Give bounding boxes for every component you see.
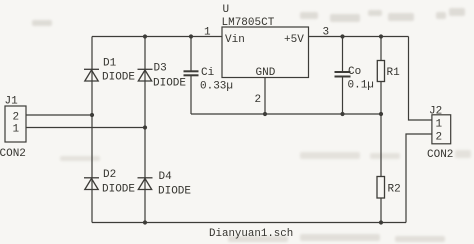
wire D3/D4 vertical [144,37,146,223]
svg-text:D1: D1 [103,58,117,70]
op-amp U1 regulator box LM7805CT [222,27,309,78]
resistor R2 [377,177,385,199]
svg-text:DIODE: DIODE [102,72,135,84]
diode D2 [84,178,99,190]
svg-text:R1: R1 [387,67,401,79]
svg-text:LM7805CT: LM7805CT [222,17,275,29]
diode D4 [138,178,153,190]
wire Ci vertical lower [190,76,192,114]
junction at ground bus / R1 [379,112,383,116]
wire right rail to J2 pin 1 [409,37,433,121]
svg-text:DIODE: DIODE [102,184,135,196]
wire regulator output (pin 3) [309,36,409,38]
svg-text:D3: D3 [154,63,167,75]
svg-text:GND: GND [256,67,276,79]
scan smudge top right [32,8,465,26]
svg-text:2: 2 [255,94,262,106]
svg-text:1: 1 [204,27,211,39]
wire J2 pin 2 to bottom bus [406,134,432,223]
svg-text:J1: J1 [5,96,19,108]
junction at output / Co [340,34,344,38]
junction at J1 pin2 / left vertical [90,113,94,117]
diode D1 [84,69,99,81]
wire top bus [92,36,222,38]
diode D3 [138,69,153,81]
svg-text:CON2: CON2 [427,149,453,161]
svg-text:2: 2 [13,112,20,124]
wire bottom bus [92,222,406,224]
svg-text:J2: J2 [429,106,442,118]
svg-text:Co: Co [348,66,361,78]
connector J1 CON2 [5,106,26,142]
svg-text:0.33µ: 0.33µ [200,81,233,93]
wire Co vertical lower [342,78,344,115]
junction at ground bus / regulator GND [263,112,267,116]
junction at output / R1 [379,34,383,38]
wire Co vertical upper [342,37,344,72]
svg-text:DIODE: DIODE [158,186,191,198]
svg-text:Ci: Ci [201,67,215,79]
capacitor Ci [184,71,199,75]
svg-text:2: 2 [436,132,443,144]
svg-text:U: U [223,4,230,16]
svg-text:CON2: CON2 [0,148,26,160]
wire Ci vertical upper [190,37,192,71]
wire J1 pin 2 [26,114,92,116]
junction at top bus / D3 [143,34,147,38]
svg-text:DIODE: DIODE [153,78,186,90]
wire ground bus [191,113,381,115]
capacitor Co [335,72,351,77]
svg-text:3: 3 [323,27,330,39]
junction at bottom bus / D4 [143,220,147,224]
svg-text:Dianyuan1.sch: Dianyuan1.sch [209,228,293,240]
svg-text:Vin: Vin [225,34,245,46]
svg-text:1: 1 [436,119,443,131]
svg-text:D2: D2 [103,169,116,181]
svg-text:D4: D4 [159,171,173,183]
junction at J1 pin1 / D3-D4 vertical [143,125,147,129]
resistor R1 [377,61,384,82]
wire regulator GND pin 2 [264,78,266,115]
svg-text:+5V: +5V [284,34,304,46]
junction at top bus / Ci [189,34,193,38]
connector J2 CON2 [432,115,451,144]
scan smudge mid right band [60,150,471,161]
svg-text:1: 1 [13,124,20,136]
wire R1/R2 vertical [380,37,382,223]
wire J1 pin 1 [26,127,145,129]
svg-text:R2: R2 [388,184,401,196]
svg-text:0.1µ: 0.1µ [348,80,374,92]
scan smudge bottom [228,234,445,242]
wire left vertical (D1/D2 branch) [91,37,93,223]
junction at ground bus / Co [340,112,344,116]
junction at bottom bus / R2 [379,220,383,224]
